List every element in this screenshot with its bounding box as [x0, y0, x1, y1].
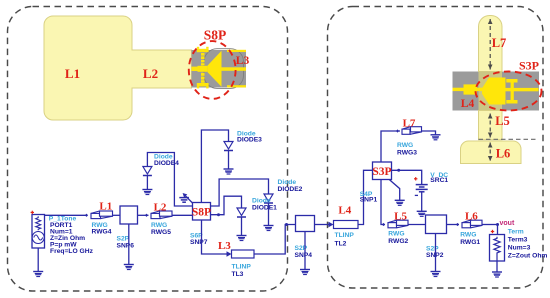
- svg-text:L7: L7: [492, 36, 507, 50]
- left schematic page dashed border: [8, 7, 288, 292]
- label Diode DIODE2: [278, 179, 303, 193]
- S-parameter block S8P SNP7: [192, 203, 211, 221]
- transmission line TLINP TL3: [232, 250, 255, 258]
- label Diode DIODE1: [252, 198, 277, 212]
- ground (SNP4): [300, 270, 310, 275]
- svg-text:L5: L5: [394, 211, 407, 223]
- label RWG RWG2: [388, 231, 408, 246]
- red dashed ellipse around S8P layout cell: [189, 41, 236, 99]
- label L3: [218, 240, 231, 252]
- label L5 (layout): [495, 114, 510, 128]
- diagonal ground at S8P corner: [179, 193, 192, 203]
- S-parameter block SNP6: [120, 206, 138, 224]
- wire SNP6 to ground: [128, 224, 130, 265]
- wire SNP2 to ground: [435, 234, 437, 272]
- ground (DIODE4): [142, 190, 152, 195]
- via ladder lower squares: [201, 73, 205, 83]
- label L5: [394, 211, 407, 223]
- terminator Term3: [490, 230, 505, 261]
- junction node dot: [397, 169, 400, 172]
- via ladder upper squares: [197, 47, 209, 89]
- waveguide RWG2: [382, 220, 408, 228]
- svg-text:RWG3: RWG3: [397, 149, 417, 156]
- label S4P SNP1: [360, 191, 378, 204]
- narrow link segment: [477, 88, 483, 91]
- source P_1Tone PORT1: [31, 211, 45, 248]
- svg-text:DIODE2: DIODE2: [278, 186, 303, 193]
- svg-text:Diode: Diode: [278, 179, 297, 186]
- waveguide RWG4: [85, 211, 113, 219]
- strip crossing gray cell: [479, 72, 503, 111]
- label S2P SNP4: [295, 245, 313, 259]
- S-parameter block SNP4: [296, 216, 315, 232]
- svg-text:Num=3: Num=3: [508, 244, 531, 251]
- ground (SNP6): [124, 265, 134, 270]
- wire RWG1 to vout node: [482, 224, 498, 226]
- svg-text:RWG2: RWG2: [388, 238, 408, 245]
- svg-text:L2: L2: [154, 202, 167, 214]
- tapered horn radiator: [208, 51, 222, 87]
- via ladder bottom bar: [197, 83, 209, 86]
- svg-text:DIODE3: DIODE3: [237, 136, 262, 143]
- svg-text:SNP4: SNP4: [295, 252, 313, 259]
- ground (DIODE1): [237, 236, 247, 241]
- svg-text:DIODE1: DIODE1: [252, 205, 277, 212]
- svg-text:RWG: RWG: [460, 231, 476, 238]
- label L6 (layout): [496, 147, 511, 161]
- dimension arrow L6: [488, 143, 493, 162]
- svg-text:L3: L3: [236, 55, 250, 67]
- wire SNP2 to RWG1: [447, 224, 460, 226]
- dimension arrow L5: [488, 114, 493, 138]
- svg-text:SRC1: SRC1: [430, 177, 448, 184]
- label L7: [403, 118, 416, 130]
- wire DIODE4 branch: [147, 153, 192, 207]
- diode DIODE4: [143, 167, 152, 190]
- svg-text:S3P: S3P: [519, 59, 539, 73]
- svg-text:DIODE4: DIODE4: [154, 160, 179, 167]
- wire S3P top to RWG3: [381, 131, 400, 162]
- label L2 (layout): [143, 66, 158, 81]
- wire S8P to DIODE1: [211, 196, 242, 215]
- top edge strip line: [227, 50, 246, 52]
- label S6P SNP7: [190, 232, 208, 246]
- wire RWG3 to ground: [421, 131, 436, 135]
- svg-text:L6: L6: [465, 211, 478, 223]
- I-beam top cap: [506, 79, 517, 83]
- wire Term3 to ground: [496, 261, 498, 272]
- junction node dot: [217, 213, 220, 216]
- ground plane (gray) of S3P layout cell: [453, 72, 540, 111]
- svg-text:Term3: Term3: [508, 237, 528, 244]
- label L1 (layout): [65, 66, 80, 81]
- ground (Term3): [492, 272, 502, 277]
- label RWG RWG4: [92, 222, 112, 236]
- svg-text:L4: L4: [461, 98, 475, 110]
- wire PORT1 to ground: [37, 248, 39, 272]
- label S8P (layout): [204, 28, 227, 43]
- ground (DIODE3): [224, 169, 234, 174]
- label S2P SNP6: [117, 236, 135, 250]
- mid output line: [506, 88, 539, 91]
- vertical stub line L7 (upper yellow strip): [479, 16, 503, 72]
- svg-text:L1: L1: [65, 66, 80, 81]
- svg-text:RWG: RWG: [388, 231, 404, 238]
- wire S8P top to DIODE3 rail: [201, 130, 228, 203]
- wire TL2 to S3P: [358, 170, 373, 224]
- label S2P SNP2: [426, 245, 444, 259]
- waveguide RWG5: [145, 211, 172, 219]
- svg-text:S8P: S8P: [204, 28, 227, 43]
- via ladder top bar: [197, 49, 209, 52]
- svg-text:TLINP: TLINP: [232, 263, 252, 270]
- ground (DIODE2): [264, 226, 274, 231]
- svg-text:TL3: TL3: [232, 271, 244, 278]
- waveguide RWG3: [396, 127, 422, 135]
- svg-text:RWG: RWG: [397, 142, 413, 149]
- S-parameter block SNP2: [426, 215, 447, 234]
- pentagon pad: [482, 78, 506, 105]
- label L4 (layout): [461, 98, 475, 110]
- svg-text:Term: Term: [508, 228, 524, 235]
- diode DIODE2: [264, 194, 273, 226]
- vertical stub line L5 (lower strip): [479, 111, 503, 140]
- label L3 (layout): [236, 55, 250, 67]
- wire S3P bottom to RWG2: [381, 180, 385, 225]
- wire V_DC to ground: [421, 192, 423, 212]
- svg-text:TL2: TL2: [335, 240, 347, 247]
- ground plane (gray) of S8P layout cell: [192, 50, 247, 88]
- label V_DC SRC1: [430, 172, 448, 184]
- svg-text:Freq=LO GHz: Freq=LO GHz: [50, 248, 94, 255]
- svg-text:TLINP: TLINP: [335, 232, 355, 239]
- label L2: [154, 202, 167, 214]
- wire RWG4 to SNP6: [113, 214, 121, 216]
- svg-text:Z=Zout Ohm: Z=Zout Ohm: [508, 252, 548, 259]
- I-beam bottom cap: [506, 100, 517, 104]
- wire vout to Term3: [497, 225, 499, 235]
- label L6: [465, 211, 478, 223]
- svg-text:L3: L3: [218, 240, 231, 252]
- wire SNP4 to ground: [304, 232, 306, 270]
- svg-text:S3P: S3P: [372, 166, 391, 178]
- transmission line TLINP TL2: [334, 221, 359, 229]
- label RWG RWG3: [397, 142, 417, 156]
- svg-text:L2: L2: [143, 66, 158, 81]
- svg-text:SNP1: SNP1: [360, 197, 378, 204]
- via ladder center square: [198, 66, 208, 72]
- label L4: [338, 205, 351, 217]
- svg-text:RWG1: RWG1: [460, 239, 480, 246]
- wire RWG2 to SNP2: [408, 224, 426, 226]
- label L1: [99, 200, 112, 212]
- input arrow of TL3: [227, 251, 232, 256]
- wire TL3 to SNP4: [254, 225, 296, 255]
- junction node dot at SNP4 input: [285, 223, 288, 226]
- label Diode DIODE4: [154, 153, 179, 167]
- label RWG RWG5: [151, 222, 171, 236]
- svg-text:L5: L5: [495, 114, 510, 128]
- stepped impedance segment: [464, 84, 478, 94]
- microstrip patch L1 with feed line L2 (yellow layout): [44, 16, 192, 120]
- output microstrip line from horn: [222, 67, 247, 71]
- label RWG RWG1: [460, 231, 480, 246]
- svg-text:Diode: Diode: [252, 198, 271, 205]
- dimension arrow L7: [488, 19, 493, 70]
- right schematic page dashed border: [328, 7, 544, 289]
- svg-text:RWG5: RWG5: [151, 229, 171, 236]
- svg-text:L7: L7: [403, 118, 416, 130]
- S-parameter block S3P SNP1: [372, 162, 391, 180]
- wide stub pad L6: [461, 141, 522, 164]
- svg-text:SNP7: SNP7: [190, 239, 208, 246]
- diode DIODE1: [237, 208, 246, 236]
- node vout: [496, 220, 515, 227]
- svg-text:RWG4: RWG4: [92, 229, 112, 236]
- label S3P (layout): [519, 59, 539, 73]
- boundary dashed line between L5 and L6: [479, 138, 538, 140]
- ground (V_DC): [417, 211, 427, 216]
- label TLINP TL2: [335, 232, 355, 247]
- svg-text:SNP6: SNP6: [117, 242, 135, 249]
- input arrow of TL2: [329, 222, 334, 227]
- wire S3P to V_DC: [392, 170, 422, 184]
- label Diode DIODE3: [237, 130, 262, 143]
- label PORT1 parameters: [50, 222, 94, 255]
- wire S8P bottom to TL3: [202, 220, 227, 254]
- label L7 (layout): [492, 36, 507, 50]
- ground (SNP2): [431, 272, 441, 277]
- svg-text:L6: L6: [496, 147, 511, 161]
- wire SNP4 to TL2: [315, 224, 329, 226]
- wire PORT1 to RWG4: [38, 214, 87, 216]
- svg-text:L4: L4: [338, 205, 351, 217]
- label P_1Tone: [49, 215, 77, 222]
- rounded keepout outline inside gray cell: [204, 49, 244, 89]
- svg-text:RWG: RWG: [151, 222, 167, 229]
- red dashed ellipse around S3P layout cell: [476, 72, 542, 111]
- wire SNP6 to RWG5: [138, 214, 149, 216]
- diode DIODE3: [224, 142, 233, 170]
- wire S8P to DIODE2: [211, 179, 269, 206]
- I-beam stub vertical bar: [511, 79, 514, 104]
- ground (RWG3): [431, 135, 441, 140]
- diagonal ground at S3P corner: [390, 180, 405, 206]
- microstrip feed arm into ladder: [192, 67, 198, 71]
- ground (PORT1): [33, 272, 43, 277]
- waveguide RWG1: [456, 220, 482, 228]
- DC source V_DC SRC1: [414, 177, 428, 195]
- label TLINP TL3: [232, 263, 252, 278]
- wire RWG5 to S8P: [172, 214, 193, 216]
- input microstrip line L4 inside gray: [453, 88, 464, 91]
- svg-text:vout: vout: [500, 220, 515, 227]
- label Term Term3 parameters: [508, 228, 548, 259]
- svg-text:S8P: S8P: [192, 207, 211, 219]
- bottom edge strip line: [227, 85, 246, 87]
- svg-text:L1: L1: [99, 200, 112, 212]
